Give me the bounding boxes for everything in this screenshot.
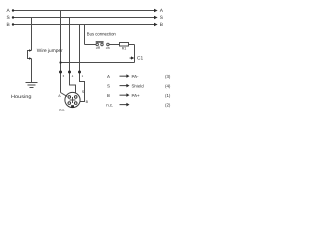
C1 arrow tail bbox=[130, 57, 132, 60]
arrowhead C1 bbox=[131, 56, 134, 59]
svg-text:Wire jumper: Wire jumper bbox=[37, 48, 63, 54]
svg-text:n.c.: n.c. bbox=[106, 102, 113, 107]
svg-text:(1): (1) bbox=[165, 93, 171, 98]
wire: switch to R1 bbox=[109, 44, 119, 46]
wire: R1 to corner bbox=[129, 44, 135, 46]
wire: corner down to link bbox=[134, 45, 136, 63]
wire: A drop diagonal to pin bbox=[61, 93, 68, 97]
arrowhead line S right bbox=[154, 16, 158, 20]
svg-text:S: S bbox=[7, 15, 10, 21]
legend arrow row3 bbox=[120, 93, 130, 97]
svg-text:PA+: PA+ bbox=[132, 93, 141, 98]
node dot line S start bbox=[12, 16, 14, 18]
wire: B drop bbox=[80, 25, 85, 102]
svg-text:3: 3 bbox=[63, 74, 65, 78]
svg-text:B: B bbox=[160, 22, 163, 28]
svg-text:C1: C1 bbox=[137, 56, 143, 62]
wire: S drop bbox=[70, 18, 76, 94]
bus line S bbox=[13, 17, 155, 19]
svg-text:A: A bbox=[160, 8, 164, 14]
wire: A drop bbox=[60, 11, 62, 93]
svg-text:B: B bbox=[107, 93, 110, 98]
svg-text:PA-: PA- bbox=[132, 74, 140, 79]
legend arrow row2 bbox=[120, 84, 130, 88]
jumper arrowhead top bbox=[29, 49, 32, 52]
pin SE bbox=[74, 102, 77, 105]
node dot line A start bbox=[12, 9, 14, 11]
legend arrow row1 bbox=[120, 74, 130, 78]
connector keying square bbox=[71, 105, 74, 108]
resistor R1 bbox=[120, 43, 129, 47]
svg-text:B: B bbox=[7, 22, 10, 28]
svg-text:Housing: Housing bbox=[11, 94, 32, 100]
wire: switch feed bbox=[85, 44, 97, 46]
wire: jumper to ground bbox=[31, 59, 33, 83]
bus line B bbox=[13, 24, 155, 26]
jumper arrowhead bottom bbox=[29, 57, 32, 60]
arrowhead line A right bbox=[154, 9, 158, 13]
svg-text:A: A bbox=[107, 74, 110, 79]
pin SW bbox=[68, 102, 71, 105]
switch contacts bbox=[96, 43, 109, 45]
svg-text:S: S bbox=[107, 83, 110, 88]
svg-text:n.c.: n.c. bbox=[59, 108, 65, 112]
svg-text:A: A bbox=[58, 94, 61, 98]
terminal dot A bbox=[59, 71, 62, 74]
svg-text:1: 1 bbox=[82, 74, 84, 78]
svg-text:(4): (4) bbox=[165, 83, 171, 88]
svg-text:A: A bbox=[7, 8, 11, 14]
svg-text:R1: R1 bbox=[122, 47, 127, 51]
connector circle U1 bbox=[65, 92, 80, 107]
pin NE bbox=[74, 96, 77, 99]
svg-text:(3): (3) bbox=[165, 74, 171, 79]
svg-text:off: off bbox=[96, 46, 100, 50]
wire: termination link A-to-C1 bbox=[61, 62, 135, 64]
wire jumper bracket bbox=[27, 50, 30, 59]
bus line A bbox=[13, 10, 155, 12]
arrowhead line B right bbox=[154, 23, 158, 27]
wire: B line drop to bus-connection switch bbox=[84, 25, 86, 45]
terminal dot B bbox=[78, 71, 81, 74]
node link junction bbox=[59, 61, 61, 63]
connector center cross bbox=[70, 97, 76, 103]
svg-text:Bus connection: Bus connection bbox=[87, 32, 116, 38]
svg-text:B: B bbox=[86, 100, 89, 104]
svg-text:S: S bbox=[160, 15, 163, 21]
svg-text:(2): (2) bbox=[165, 102, 171, 107]
svg-text:4: 4 bbox=[72, 74, 74, 78]
node dot line B start bbox=[12, 23, 14, 25]
ground bbox=[26, 83, 38, 88]
legend arrow row4 bbox=[120, 103, 130, 107]
svg-text:on: on bbox=[106, 46, 110, 50]
pin NW bbox=[68, 96, 71, 99]
svg-text:Shield: Shield bbox=[132, 83, 145, 88]
wire: S drop to jumper bbox=[31, 18, 33, 51]
switch bridge bar bbox=[96, 41, 104, 42]
terminal dot S bbox=[68, 71, 71, 74]
